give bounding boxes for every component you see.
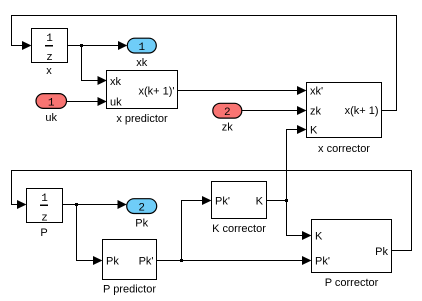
svg-text:x: x: [46, 65, 52, 77]
label P: [40, 227, 47, 239]
wire x unit delay output to outport xk: [68, 45, 127, 47]
arrowhead into x corrector zk: [297, 106, 307, 115]
svg-text:Pk: Pk: [106, 256, 119, 268]
svg-text:2: 2: [224, 107, 231, 119]
arrowhead into x predictor uk: [98, 97, 107, 106]
arrowhead into P predictor Pk: [93, 256, 103, 265]
arrowhead into P corrector Pk': [302, 256, 312, 265]
wire junction down to P corrector K input: [287, 201, 311, 236]
inport zk (2): [213, 103, 242, 119]
svg-text:x predictor: x predictor: [116, 113, 168, 125]
wire P unit delay output to outport Pk: [63, 204, 126, 206]
svg-text:K: K: [315, 231, 323, 243]
svg-text:z: z: [41, 213, 48, 225]
svg-text:zk: zk: [222, 122, 234, 134]
arrowhead into x corrector xk': [297, 86, 307, 95]
svg-text:1: 1: [41, 193, 48, 205]
svg-text:K: K: [256, 196, 264, 208]
arrowhead into x predictor xk: [98, 76, 107, 85]
wire inport zk to x corrector zk input: [242, 110, 305, 112]
svg-text:Pk: Pk: [375, 246, 388, 258]
label Pk: [135, 218, 148, 230]
junction node on P predictor output: [180, 259, 183, 262]
svg-text:1: 1: [48, 97, 55, 109]
block P corrector: [312, 220, 392, 273]
label x corrector: [318, 143, 370, 155]
label P corrector: [325, 277, 379, 289]
svg-text:xk': xk': [310, 86, 323, 98]
svg-text:K corrector: K corrector: [212, 223, 266, 235]
unit delay block P (1/z): [27, 189, 63, 225]
svg-text:x(k+ 1)': x(k+ 1)': [138, 86, 174, 98]
arrowhead into x unit delay: [22, 41, 32, 50]
junction node on K corrector output: [285, 199, 288, 202]
arrowhead into P corrector K: [302, 231, 312, 240]
wire K corrector output junction up to x corrector K input: [287, 130, 306, 201]
label uk: [45, 112, 57, 124]
junction node on x output: [80, 44, 83, 47]
outport Pk (2): [127, 199, 157, 215]
svg-text:P corrector: P corrector: [325, 277, 379, 289]
wire inport uk to x predictor uk input: [67, 101, 106, 103]
wire branch to x predictor xk input: [82, 46, 106, 81]
junction node on P output: [75, 203, 78, 206]
arrowhead into P unit delay: [17, 200, 27, 209]
arrowhead into x corrector K: [297, 125, 307, 134]
label K corrector: [212, 223, 266, 235]
wire top feedback loop: x corrector output to x unit delay input: [12, 16, 397, 111]
outport xk (1): [127, 38, 156, 54]
label xk: [136, 57, 148, 69]
svg-text:x(k+ 1): x(k+ 1): [345, 105, 379, 117]
svg-text:zk: zk: [310, 106, 322, 118]
label x: [46, 65, 52, 77]
svg-text:2: 2: [138, 203, 145, 215]
inport uk (1): [36, 94, 67, 110]
wire x predictor output to x corrector xk' input: [178, 90, 306, 92]
block K corrector: [212, 182, 267, 219]
svg-text:Pk': Pk': [315, 256, 330, 268]
svg-text:x corrector: x corrector: [318, 143, 370, 155]
arrowhead into outport xk: [118, 41, 127, 50]
svg-text:Pk': Pk': [215, 196, 230, 208]
svg-text:xk: xk: [136, 57, 148, 69]
svg-text:uk: uk: [45, 112, 57, 124]
wire P predictor output to P corrector Pk' input: [157, 260, 311, 262]
wire branch up to K corrector Pk' input: [182, 201, 211, 261]
arrowhead into outport Pk: [118, 200, 127, 209]
svg-text:Pk: Pk: [135, 218, 148, 230]
svg-text:1: 1: [138, 42, 145, 54]
svg-text:z: z: [46, 52, 53, 64]
svg-text:1: 1: [46, 33, 53, 45]
svg-text:K: K: [310, 125, 318, 137]
svg-text:P predictor: P predictor: [103, 284, 156, 296]
wire K corrector output to junction: [267, 200, 287, 202]
block x corrector: [307, 83, 382, 138]
block P predictor: [103, 240, 157, 280]
label zk: [222, 122, 234, 134]
svg-text:xk: xk: [110, 76, 122, 88]
label x predictor: [116, 113, 168, 125]
label P predictor: [103, 284, 156, 296]
svg-text:Pk': Pk': [139, 256, 154, 268]
svg-text:P: P: [40, 227, 47, 239]
block x predictor: [107, 71, 178, 109]
unit delay block x (1/z): [32, 29, 68, 65]
svg-text:uk: uk: [110, 97, 122, 109]
wire branch down to P predictor Pk input: [77, 205, 102, 261]
arrowhead into K corrector Pk': [202, 196, 212, 205]
wire bottom feedback loop: P corrector output to P unit delay input: [12, 171, 412, 251]
